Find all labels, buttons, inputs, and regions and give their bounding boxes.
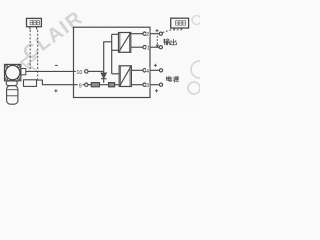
char 电 <box>166 76 171 81</box>
transmitter bolt bottom-right <box>18 78 20 80</box>
riser from wire 10 <box>104 42 112 72</box>
transmitter body bar <box>6 81 17 86</box>
watermark circle big right <box>191 61 208 78</box>
external circle power - <box>159 83 162 86</box>
terminal 9 circle <box>85 83 88 86</box>
main box <box>74 27 151 97</box>
dashed current arrow <box>156 36 158 45</box>
char 输 <box>163 39 169 45</box>
watermark text CLAIR <box>19 7 87 65</box>
diode D1 <box>103 71 105 73</box>
transmitter bolt bottom-left <box>6 78 8 80</box>
dashed wire from M1 right leg <box>37 30 39 79</box>
branch to block A upper input <box>112 33 119 35</box>
terminal 9 label <box>78 82 83 88</box>
watermark chevron <box>21 55 37 71</box>
plus mark lower wire <box>54 89 57 92</box>
vertical bus <box>111 34 113 74</box>
transmitter body line 2 <box>7 95 18 97</box>
watermark circle top-right <box>192 16 201 25</box>
wire block B out 4 <box>131 69 142 71</box>
external circle power + <box>159 69 162 72</box>
terminal 1 circle <box>143 46 146 49</box>
M2 leg right <box>181 28 183 30</box>
wire R2 to block B <box>115 84 120 86</box>
terminal 4 circle <box>143 69 146 72</box>
display meter M1 (top-left) <box>27 18 42 26</box>
branch to block A lower input <box>112 49 119 51</box>
resistor R2 <box>109 83 115 87</box>
terminal 3 circle <box>143 83 146 86</box>
transmitter body line 1 <box>7 89 18 91</box>
char 出 <box>170 39 176 45</box>
scan noise overlay <box>0 0 200 113</box>
terminal 10 circle <box>85 70 88 73</box>
branch to block B upper input <box>112 73 120 75</box>
minus mark upper wire <box>55 64 58 66</box>
terminal 2 circle <box>143 32 146 35</box>
wire upper loop <box>26 70 85 72</box>
resistor R1 <box>91 83 99 87</box>
display meter M2 (top-right) <box>171 18 189 28</box>
external circle output + <box>159 32 162 35</box>
transmitter flange <box>21 69 26 75</box>
terminal 4 label <box>146 67 150 73</box>
wire lower loop with jog <box>37 80 85 85</box>
plus mark power <box>154 64 157 67</box>
transmitter bolt top-right <box>18 65 20 67</box>
converter block A (top) <box>119 33 131 53</box>
wire terminal 1 external <box>150 46 159 48</box>
transmitter head square <box>5 64 21 80</box>
terminal 2 label <box>146 31 149 37</box>
terminal 10 label <box>76 68 84 75</box>
M2 leg left <box>173 28 175 30</box>
label 输出 <box>163 39 176 45</box>
transmitter conduit box <box>24 80 37 87</box>
M1 digits <box>30 21 39 25</box>
wire 9 to R1 <box>88 84 91 86</box>
terminal 1 label <box>146 44 149 50</box>
M1 leg left <box>29 27 31 30</box>
wire terminal 2 external <box>150 33 159 35</box>
transmitter body cylinder <box>7 86 18 105</box>
wire block A out 1 <box>131 46 143 48</box>
wire terminal 4 external <box>150 69 159 71</box>
dashed wire from M1 left leg <box>29 30 31 71</box>
M2 digits <box>175 21 185 26</box>
external circle output - <box>159 46 162 49</box>
plus mark output <box>155 29 158 32</box>
wire 10 to riser <box>88 70 104 72</box>
char 源 <box>173 77 179 83</box>
wire block B out 3 <box>131 84 142 86</box>
terminal 3 label <box>146 82 149 88</box>
wire terminal 3 external <box>150 84 159 86</box>
wire R1 to junction <box>100 84 109 86</box>
block A diagonal <box>119 33 130 51</box>
block B diagonal <box>120 67 131 86</box>
wire block A out 2 <box>131 33 143 35</box>
label 电源 <box>166 76 179 82</box>
tick mark power minus <box>155 89 158 92</box>
transmitter bolt top-left <box>6 65 8 67</box>
M1 leg right <box>36 27 38 30</box>
dashed link to display M2 <box>162 30 181 33</box>
watermark circle small right <box>188 82 200 94</box>
transmitter head circle <box>6 65 20 79</box>
converter block B (bottom) <box>119 66 131 87</box>
